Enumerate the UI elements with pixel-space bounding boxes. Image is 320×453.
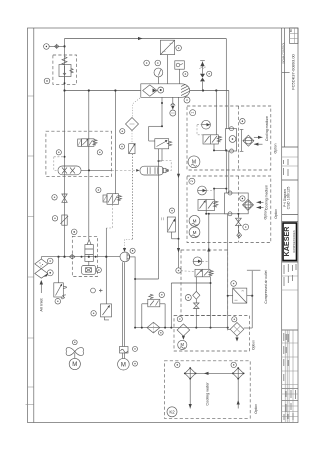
- oil pressure regulator loop: [149, 125, 172, 162]
- fan 1 with motor: [66, 340, 83, 370]
- heat exchanger 2: [225, 191, 249, 216]
- small title texts: [284, 159, 297, 420]
- inner cooling medium box 1: [238, 106, 240, 170]
- svg-text:1: 1: [191, 112, 195, 114]
- restrictor rect on left column: [52, 215, 68, 225]
- cooling water diamonds K2: [175, 362, 245, 408]
- pressure relief valve dashed box: [53, 55, 77, 84]
- moisture separator diamond: [147, 322, 163, 335]
- oil nozzle rect: [119, 143, 135, 252]
- node junctions top: [63, 45, 65, 47]
- svg-text:CSD 100/125: CSD 100/125: [286, 187, 290, 210]
- dryer option box K1: [174, 316, 250, 352]
- separator cartridge: [71, 229, 96, 261]
- svg-text:Option: Option: [264, 209, 268, 219]
- inlet valve: [54, 257, 67, 304]
- air inlet arrow and text: [39, 280, 44, 312]
- label circle box1: [190, 110, 196, 116]
- svg-text:M: M: [121, 362, 126, 368]
- cooler A1 (air cooler square): [160, 40, 181, 84]
- option box 1 dashed: [187, 106, 271, 170]
- svg-text:M: M: [193, 218, 197, 223]
- filter diamond box3: [185, 277, 200, 301]
- M~ motor box1: [188, 156, 200, 168]
- safety valve: [142, 292, 165, 328]
- svg-text:Cooling medium: Cooling medium: [265, 185, 269, 210]
- svg-text:FC5DK37-00893.00: FC5DK37-00893.00: [291, 53, 296, 89]
- svg-text:Option: Option: [274, 143, 278, 153]
- separator sump with heater: [82, 266, 102, 275]
- drain on cooling water 2: [236, 213, 249, 238]
- solenoid valve Y1 in box A: [56, 139, 102, 155]
- vent valve 2/2: [91, 304, 112, 320]
- svg-text:Compressed air outlet: Compressed air outlet: [264, 270, 268, 303]
- svg-text:2: 2: [190, 180, 194, 182]
- thermometer box1: [197, 120, 210, 135]
- oil filter diamond on dotted line: [120, 98, 140, 144]
- svg-text:Option: Option: [251, 340, 255, 350]
- shutoff box3: [194, 299, 200, 327]
- svg-text:Bl: Bl: [289, 29, 293, 32]
- thermostat valve box2: [198, 188, 228, 215]
- dashed control box A: [46, 131, 112, 176]
- valve right drop box3: [171, 277, 211, 328]
- discharge riser: [158, 149, 160, 279]
- svg-text:M: M: [72, 362, 77, 368]
- wire inlet manifold: [41, 256, 120, 258]
- separator dashed box: [72, 236, 97, 276]
- level indicator rect: [162, 208, 196, 273]
- condensate separator diamond right: [228, 317, 244, 342]
- svg-text:KOMPRESSOREN: KOMPRESSOREN: [292, 230, 296, 252]
- oil separator vessel horizontal: [141, 82, 191, 103]
- thermostat valve box1: [203, 91, 227, 152]
- wire left column: [64, 39, 66, 257]
- thermometer box2: [198, 186, 215, 195]
- compressed air outlet flange: [244, 270, 261, 328]
- shut-off valve on left column: [52, 194, 67, 202]
- cooling medium diamond 2: [240, 196, 264, 211]
- svg-text:KAESER: KAESER: [282, 226, 291, 257]
- wire second column: [88, 91, 90, 240]
- svg-text:Option: Option: [254, 404, 258, 414]
- main pipe lines: [41, 37, 229, 266]
- drive motor and shaft: [118, 262, 138, 370]
- svg-text:Air inlet: Air inlet: [39, 297, 44, 311]
- thermostat valve box3: [195, 269, 213, 277]
- spring: [62, 57, 67, 65]
- riser into box3: [202, 213, 210, 269]
- wire top manifold: [65, 90, 141, 92]
- sensor box right of gauge: [175, 61, 188, 84]
- sheet box top right: [290, 28, 298, 44]
- option box 2 dashed: [187, 176, 271, 243]
- node label circle left: [44, 78, 50, 84]
- cooling medium diamond 1: [240, 119, 263, 152]
- instrument circles above vessel: [144, 60, 163, 84]
- airend: [120, 248, 159, 327]
- title block strip: [281, 28, 298, 423]
- svg-text:K2: K2: [169, 409, 175, 414]
- vent stack with valve: [199, 61, 212, 91]
- KAESER logo block: [283, 223, 297, 261]
- svg-text:Cooling water: Cooling water: [206, 382, 210, 406]
- thermometer box3: [193, 257, 202, 266]
- check valve diamond inside: [143, 85, 157, 96]
- thermo capsule B on riser: [136, 161, 171, 176]
- label circle box2: [189, 178, 195, 184]
- wire vent top line: [65, 38, 227, 40]
- wire vessel drops: [161, 97, 180, 239]
- M~ fan dryer: [178, 340, 187, 349]
- K2 option box: [164, 361, 250, 419]
- border frame: [26, 28, 299, 423]
- air filter double diamond: [35, 257, 53, 279]
- pressure gauge: [154, 68, 163, 77]
- vent valve line to silencer: [91, 228, 108, 304]
- svg-text:SIGMA CONTROL: SIGMA CONTROL: [281, 42, 285, 64]
- node label digits overlay: [49, 47, 246, 364]
- quick coupling on inlet manifold: [69, 255, 75, 259]
- discharge manifold: [134, 327, 229, 329]
- node test point circle top: [44, 44, 65, 50]
- condensate diamond left K1: [177, 316, 190, 339]
- heat exchanger 1: [225, 127, 236, 193]
- blowdown solenoid valve: [96, 89, 122, 228]
- main line below HX2: [227, 214, 229, 330]
- svg-text:M: M: [193, 230, 197, 235]
- dryer square: [227, 281, 253, 303]
- coupling symbol: [55, 44, 59, 49]
- valve V1 body: [59, 65, 71, 77]
- silencer capsule in box A: [54, 156, 136, 175]
- M~ motors box2: [189, 215, 200, 237]
- svg-text:Option: Option: [274, 209, 278, 219]
- wire vent drop: [225, 39, 227, 129]
- svg-text:Cooling medium: Cooling medium: [265, 116, 269, 141]
- K2 circle: [167, 407, 177, 417]
- option box 3 dashed: [181, 250, 228, 316]
